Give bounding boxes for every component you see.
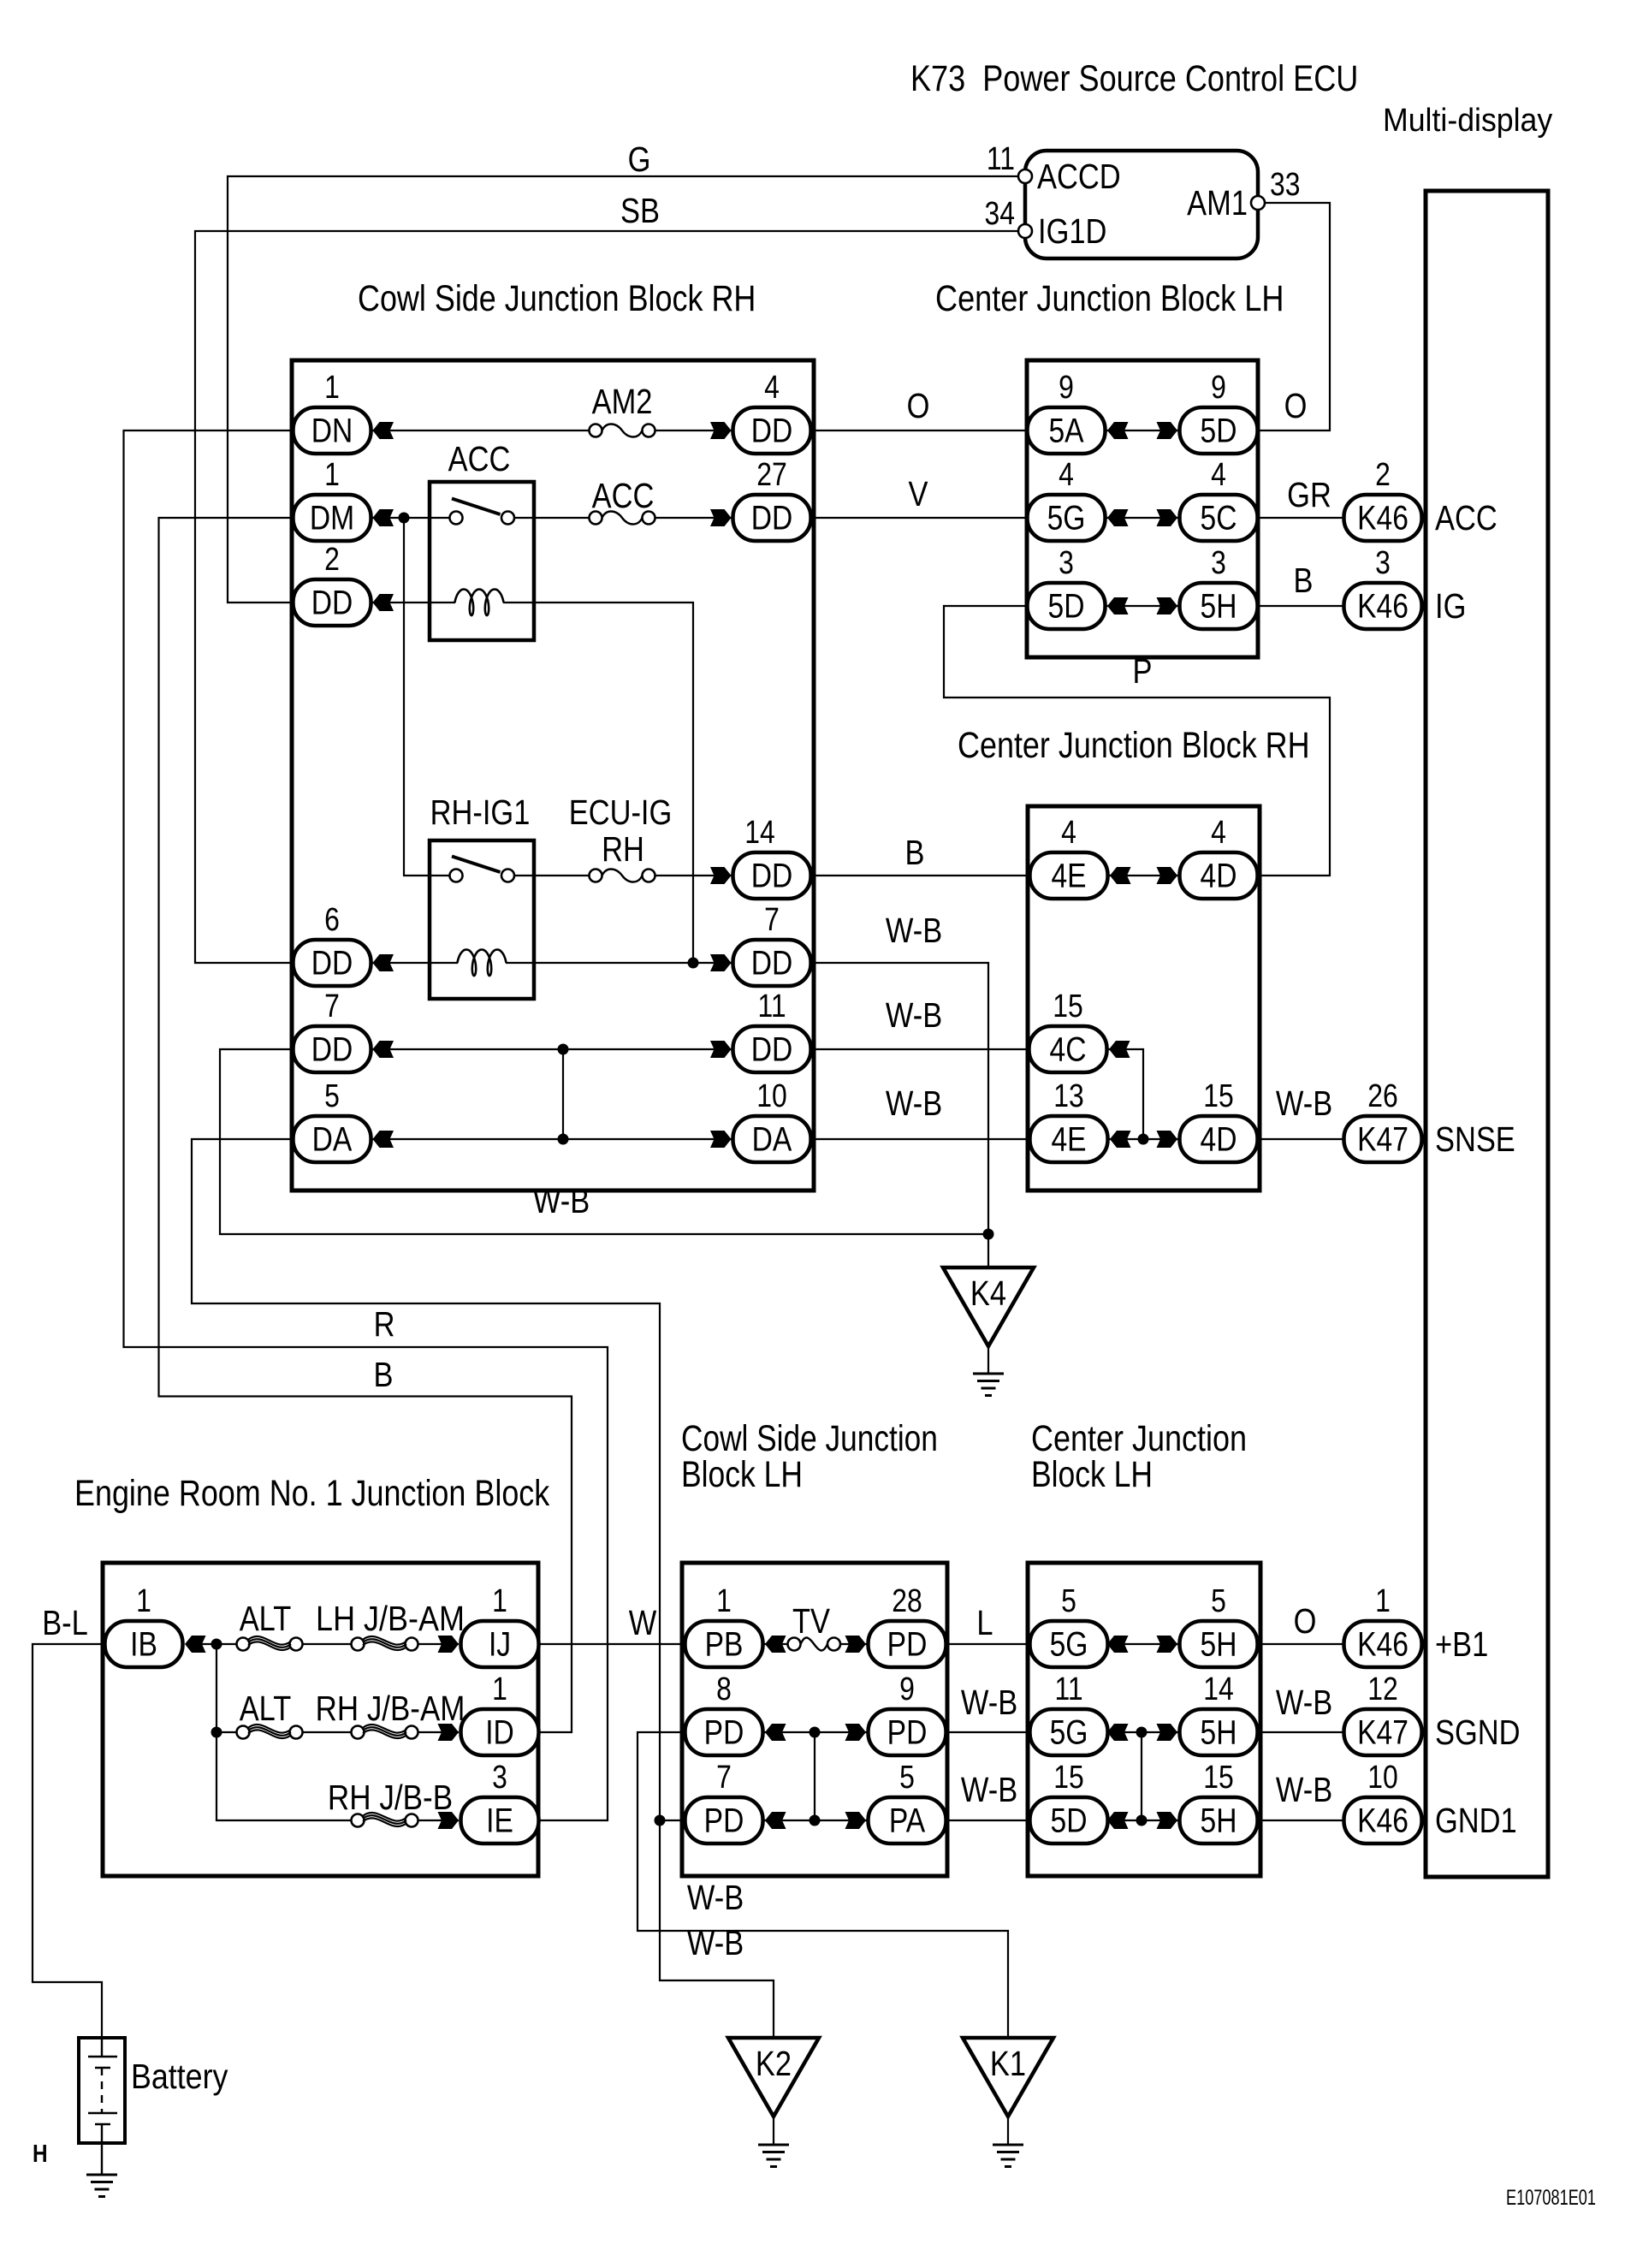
svg-text:ACC: ACC <box>592 477 655 515</box>
ECU K73 body <box>1025 151 1258 258</box>
svg-text:5G: 5G <box>1050 1625 1088 1663</box>
svg-text:ECU-IG: ECU-IG <box>569 793 673 832</box>
connector DM pin 1 <box>294 456 371 541</box>
wire IB to fusible link ALT <box>187 1643 237 1645</box>
svg-text:DN: DN <box>311 412 353 449</box>
svg-text:4D: 4D <box>1201 857 1237 894</box>
svg-text:ACC: ACC <box>448 440 511 478</box>
junction IB row <box>211 1639 222 1650</box>
svg-text:3: 3 <box>1211 544 1226 580</box>
connector IE pin 3 <box>461 1759 539 1843</box>
svg-text:5: 5 <box>324 1078 340 1113</box>
svg-text:Center Junction Block LH: Center Junction Block LH <box>935 278 1284 319</box>
svg-text:3: 3 <box>492 1759 507 1795</box>
svg-text:DD: DD <box>751 944 793 982</box>
wire SB: ECU IG1D to DD 6 <box>195 231 1018 963</box>
svg-text:9: 9 <box>1211 369 1226 405</box>
wire PD 8 to PD 9 <box>763 1731 869 1733</box>
svg-text:PA: PA <box>889 1802 926 1839</box>
wire V: DD 27 to 5G <box>811 517 1028 519</box>
svg-text:W-B: W-B <box>1276 1084 1332 1123</box>
wire 4E to 4D <box>1108 875 1179 876</box>
arrow into IE <box>438 1812 460 1829</box>
svg-text:5: 5 <box>899 1759 915 1795</box>
svg-text:TV: TV <box>792 1602 831 1641</box>
earth ground under battery <box>86 2175 117 2197</box>
junction block box Center Junction Block LH <box>1027 360 1258 657</box>
connector 5G pin 11 <box>1030 1671 1108 1755</box>
wire fuse TV to PD 28 <box>840 1643 869 1645</box>
wire ACC relay switch to fuse ACC <box>514 517 590 519</box>
relay ACC box <box>430 482 534 640</box>
relay ACC switch <box>450 499 515 525</box>
svg-text:W-B: W-B <box>961 1771 1017 1809</box>
svg-text:5G: 5G <box>1050 1713 1088 1751</box>
connector 5H pin 15 <box>1180 1759 1258 1843</box>
wire O: DD 4 to 5A <box>811 430 1028 431</box>
connector PA pin 5 <box>869 1759 946 1843</box>
svg-text:ACC: ACC <box>1435 499 1497 537</box>
svg-text:10: 10 <box>756 1078 787 1113</box>
svg-text:E107081E01: E107081E01 <box>1506 2185 1596 2209</box>
arrow into 5D lower <box>1107 597 1129 614</box>
svg-text:33: 33 <box>1270 166 1301 202</box>
svg-text:K46: K46 <box>1357 499 1409 537</box>
svg-text:LH J/B-AM: LH J/B-AM <box>316 1600 465 1638</box>
wire W-B: DD 7 right to K4 junction <box>811 963 989 1234</box>
svg-text:W-B: W-B <box>961 1683 1017 1722</box>
wire 5G to 5H row2 <box>1106 1731 1180 1733</box>
svg-text:P: P <box>1133 652 1153 691</box>
arrow into 5A <box>1107 422 1129 439</box>
svg-text:H: H <box>33 2140 48 2167</box>
connector 5H pin 14 <box>1180 1671 1258 1755</box>
svg-text:26: 26 <box>1367 1078 1398 1113</box>
connector PD pin 9 <box>869 1671 946 1755</box>
wire B: DD 14 to 4E <box>811 875 1030 876</box>
svg-text:ALT: ALT <box>240 1600 292 1638</box>
fusible link RH J/B-AM <box>352 1725 418 1739</box>
svg-text:1: 1 <box>492 1582 507 1618</box>
wire 4E to 4D lower <box>1108 1138 1179 1140</box>
svg-text:Multi-display: Multi-display <box>1383 102 1553 138</box>
svg-text:27: 27 <box>756 456 787 492</box>
svg-text:Cowl Side Junction Block RH: Cowl Side Junction Block RH <box>358 278 756 319</box>
connector 5G pin 5 <box>1030 1582 1108 1667</box>
svg-text:W-B: W-B <box>886 911 942 950</box>
junction DD 7 coil branch <box>688 958 699 969</box>
arrow into PA <box>845 1812 867 1829</box>
relay RH-IG1 coil <box>458 950 507 977</box>
svg-text:15: 15 <box>1053 988 1083 1024</box>
svg-text:DA: DA <box>312 1120 353 1158</box>
svg-text:4E: 4E <box>1051 1120 1086 1158</box>
connector IJ pin 1 <box>461 1582 539 1667</box>
wire DD 2 to ACC relay coil <box>371 602 456 603</box>
arrow into IB <box>185 1636 206 1653</box>
junction block box Center Junction Block RH <box>1028 806 1260 1190</box>
wire R: DN to IE <box>124 430 608 1820</box>
svg-text:5D: 5D <box>1051 1802 1088 1839</box>
svg-text:11: 11 <box>1054 1671 1082 1707</box>
ECU pin 34 IG1D circle <box>1018 224 1032 238</box>
arrow into ID <box>438 1724 460 1741</box>
arrow into DD 14 <box>710 867 732 884</box>
svg-text:DD: DD <box>311 944 353 982</box>
connector 4D pin 15 <box>1180 1078 1258 1162</box>
connector 4D pin 4 <box>1180 814 1258 899</box>
svg-text:Engine Room No. 1 Junction Blo: Engine Room No. 1 Junction Block <box>74 1473 549 1514</box>
svg-text:W-B: W-B <box>1276 1771 1332 1809</box>
svg-text:K73 Power Source Control ECU: K73 Power Source Control ECU <box>910 58 1358 99</box>
wire W-B: DA to 4E lower <box>811 1138 1030 1140</box>
svg-text:W: W <box>629 1604 657 1642</box>
wire RH-IG1 switch to fuse ECU-IG RH <box>514 875 590 876</box>
svg-text:7: 7 <box>716 1759 732 1795</box>
arrow into 5D 15 <box>1107 1812 1129 1829</box>
fusible link RH J/B-B <box>352 1813 418 1827</box>
svg-text:4: 4 <box>1211 814 1226 850</box>
wire junction column in Engine Room block <box>216 1644 352 1820</box>
svg-text:SGND: SGND <box>1435 1713 1521 1752</box>
junction 5D 15 row <box>1136 1815 1148 1826</box>
junction at ground K4 <box>983 1229 994 1240</box>
ground symbol K4 <box>943 1268 1034 1346</box>
wire DN to fuse AM2 <box>371 430 590 431</box>
connector 5D pin 3 <box>1028 544 1106 629</box>
connector DD pin 2 <box>294 541 371 626</box>
svg-text:R: R <box>374 1305 395 1344</box>
junction block box Engine Room No. 1 Junction Block <box>103 1563 538 1876</box>
wire to ground K4 <box>987 1234 989 1268</box>
wire L: PD 28 to 5G <box>946 1643 1030 1645</box>
svg-text:4: 4 <box>764 369 780 405</box>
svg-text:12: 12 <box>1367 1671 1398 1707</box>
wire stub to PD 7 <box>660 1820 685 1821</box>
wire tie PD rows <box>814 1732 815 1820</box>
svg-text:10: 10 <box>1367 1759 1398 1795</box>
svg-text:15: 15 <box>1203 1759 1234 1795</box>
connector DD pin 27 <box>733 456 811 541</box>
arrow into DD 7 left <box>373 1041 394 1058</box>
junction DA row <box>558 1134 569 1145</box>
svg-text:1: 1 <box>324 369 340 405</box>
svg-text:DD: DD <box>311 584 353 621</box>
svg-text:3: 3 <box>1059 544 1074 580</box>
arrow into PD 7 <box>765 1812 786 1829</box>
wire W: DA to PD 7 and ground K2 <box>192 1139 774 2038</box>
connector PD pin 7 <box>685 1759 763 1843</box>
wire O: 5H to K46 +B1 <box>1257 1643 1344 1645</box>
wire between fusible links row 1 <box>303 1643 352 1645</box>
earth ground under K2 <box>758 2145 789 2167</box>
svg-text:8: 8 <box>716 1671 732 1707</box>
relay RH-IG1 switch <box>450 857 515 882</box>
wire P: 4D to 5D lower <box>944 606 1330 876</box>
svg-text:O: O <box>1294 1602 1317 1641</box>
svg-text:O: O <box>1284 387 1308 425</box>
arrow into 5G lower <box>1107 1636 1129 1653</box>
svg-text:B: B <box>905 834 925 872</box>
junction block box Cowl Side Junction Block LH <box>682 1563 947 1876</box>
wire GR: 5C to K46 <box>1257 517 1344 519</box>
wire W-B: PA to 5D 15 <box>946 1820 1030 1821</box>
fusible link ALT row 1 <box>237 1636 303 1651</box>
wire from DM junction to RH-IG1 switch <box>404 518 450 876</box>
wire RH-IG1 relay coil to DD 7 right <box>506 962 733 964</box>
svg-text:L: L <box>976 1604 993 1642</box>
svg-text:5D: 5D <box>1048 587 1085 625</box>
svg-text:5A: 5A <box>1048 412 1083 449</box>
wire 5D to 5H row3 <box>1106 1820 1180 1821</box>
wire 5G to 5C <box>1106 517 1180 519</box>
svg-text:O: O <box>907 387 930 425</box>
connector PB pin 1 <box>685 1582 763 1667</box>
wire K4 apex to earth <box>987 1346 989 1374</box>
svg-text:6: 6 <box>324 901 340 937</box>
svg-text:GR: GR <box>1287 476 1331 514</box>
arrow into 4E lower <box>1110 1131 1131 1148</box>
svg-text:K47: K47 <box>1357 1713 1409 1751</box>
svg-text:15: 15 <box>1203 1078 1234 1113</box>
svg-text:B-L: B-L <box>42 1604 88 1642</box>
svg-text:4: 4 <box>1211 456 1226 492</box>
arrow into 5H lower <box>1157 1636 1178 1653</box>
junction at DM relay branch <box>399 513 410 524</box>
wire W-B: 5H to K47 SGND <box>1257 1731 1344 1733</box>
arrow into 5H 15 <box>1157 1812 1178 1829</box>
wire fusible link to ID <box>418 1731 460 1733</box>
svg-text:AM2: AM2 <box>592 383 653 421</box>
wire tie rows DD11-DA <box>562 1049 564 1139</box>
svg-text:1: 1 <box>1375 1582 1391 1618</box>
arrow into PD 8 <box>765 1724 786 1741</box>
svg-text:K2: K2 <box>756 2045 792 2083</box>
connector K46 pin 10 GND1 <box>1344 1759 1517 1843</box>
arrow into PB <box>765 1636 786 1653</box>
arrow into IJ <box>438 1636 460 1653</box>
svg-text:B: B <box>374 1356 394 1394</box>
wire tie 5G-5D rows <box>1141 1732 1142 1820</box>
svg-text:5H: 5H <box>1201 1802 1237 1839</box>
connector K46 pin 2 ACC <box>1344 456 1497 541</box>
arrow into DD 6 <box>373 954 394 971</box>
fuse ECU-IG RH <box>590 869 655 882</box>
junction DD 11 row <box>558 1044 569 1055</box>
connector IB pin 1 <box>105 1582 183 1667</box>
battery <box>79 2038 125 2175</box>
junction PD 7 row <box>810 1815 821 1826</box>
arrow into DN <box>373 422 394 439</box>
connector 5A pin 9 <box>1028 369 1106 454</box>
component box Multi-display <box>1426 191 1548 1877</box>
svg-text:PD: PD <box>704 1802 744 1839</box>
fusible link LH J/B-AM <box>352 1636 418 1651</box>
wire DD 7 left to DD 11 <box>371 1048 733 1050</box>
svg-text:PD: PD <box>704 1713 744 1751</box>
svg-text:PB: PB <box>705 1625 744 1663</box>
svg-text:5G: 5G <box>1047 499 1086 537</box>
connector DD pin 4 <box>733 369 811 454</box>
wire W-B: DD 7 to ground K4 <box>220 1049 988 1234</box>
svg-text:IJ: IJ <box>489 1625 511 1663</box>
junction 5G 11 row <box>1136 1727 1148 1738</box>
connector K46 pin 1 +B1 <box>1344 1582 1489 1667</box>
arrow into PD 28 <box>845 1636 867 1653</box>
svg-text:11: 11 <box>757 988 786 1024</box>
arrow into 4E <box>1110 867 1131 884</box>
wire B-L: IB to battery <box>33 1644 105 2038</box>
svg-text:V: V <box>909 475 929 514</box>
ground symbol K2 <box>728 2038 819 2117</box>
svg-text:5C: 5C <box>1201 499 1237 537</box>
svg-text:IG: IG <box>1435 587 1466 626</box>
arrow into DA right <box>710 1131 732 1148</box>
svg-text:K46: K46 <box>1357 1625 1409 1663</box>
svg-text:1: 1 <box>136 1582 151 1618</box>
junction block box Cowl Side Junction Block RH <box>292 360 814 1190</box>
connector DD pin 11 <box>733 988 811 1072</box>
wire fuse AM2 to DD 4 <box>655 430 733 431</box>
arrow into DA left <box>373 1131 394 1148</box>
svg-text:PD: PD <box>887 1713 928 1751</box>
svg-text:DM: DM <box>310 499 354 537</box>
svg-text:W-B: W-B <box>533 1182 590 1220</box>
svg-text:G: G <box>628 140 651 179</box>
connector 5D pin 15 <box>1030 1759 1108 1843</box>
wire B: 5H to K46 IG <box>1257 605 1344 607</box>
svg-text:W-B: W-B <box>687 1924 744 1962</box>
connector 5D pin 9 <box>1180 369 1258 454</box>
svg-text:14: 14 <box>1203 1671 1234 1707</box>
svg-text:28: 28 <box>892 1582 922 1618</box>
svg-text:K47: K47 <box>1357 1120 1409 1158</box>
connector DD pin 14 <box>733 814 811 899</box>
svg-text:Center Junction: Center Junction <box>1031 1418 1247 1459</box>
svg-text:DD: DD <box>751 412 793 449</box>
svg-text:13: 13 <box>1053 1078 1084 1113</box>
earth ground under K1 <box>993 2145 1023 2167</box>
wire O: ECU AM1 to 5D <box>1258 203 1331 430</box>
svg-text:B: B <box>1294 561 1314 600</box>
ECU pin 11 ACCD circle <box>1018 169 1032 183</box>
wire 5G to 5H lower row1 <box>1106 1643 1180 1645</box>
wire K1 apex to earth <box>1007 2117 1009 2145</box>
svg-text:W-B: W-B <box>1276 1683 1332 1722</box>
svg-text:1: 1 <box>324 456 340 492</box>
connector DN pin 1 <box>294 369 371 454</box>
svg-text:K1: K1 <box>990 2045 1026 2083</box>
svg-text:+B1: +B1 <box>1435 1625 1488 1664</box>
connector 5C pin 4 <box>1180 456 1258 541</box>
svg-text:5: 5 <box>1061 1582 1076 1618</box>
svg-text:IG1D: IG1D <box>1038 212 1106 251</box>
wire W-B: PD 8 to ground K1 <box>638 1732 1008 2038</box>
wire to fusible link ALT row 2 <box>216 1731 237 1733</box>
svg-text:4C: 4C <box>1050 1030 1087 1068</box>
svg-text:4E: 4E <box>1051 857 1086 894</box>
junction PD 8 row <box>810 1727 821 1738</box>
wire PB to fuse TV <box>763 1643 788 1645</box>
svg-text:RH J/B-B: RH J/B-B <box>328 1778 453 1817</box>
svg-text:4: 4 <box>1059 456 1074 492</box>
svg-text:ID: ID <box>485 1713 514 1751</box>
svg-text:ACCD: ACCD <box>1037 157 1121 196</box>
wire DD 6 to RH-IG1 relay coil <box>371 962 459 964</box>
arrow into 5G <box>1107 509 1129 526</box>
wire 4C to 4E-4D junction <box>1107 1049 1144 1139</box>
connector 5H pin 3 <box>1180 544 1258 629</box>
svg-text:DA: DA <box>752 1120 792 1158</box>
svg-text:SNSE: SNSE <box>1435 1120 1515 1159</box>
fusible link ALT row 2 <box>237 1725 303 1739</box>
connector 4C pin 15 <box>1029 988 1107 1072</box>
svg-text:Block LH: Block LH <box>1031 1454 1153 1495</box>
svg-text:GND1: GND1 <box>1435 1802 1517 1840</box>
svg-text:5H: 5H <box>1201 587 1237 625</box>
connector PD pin 8 <box>685 1671 763 1755</box>
svg-text:7: 7 <box>764 901 780 937</box>
connector 5H pin 5 lower <box>1180 1582 1258 1667</box>
arrow into DD 7 right <box>710 954 732 971</box>
svg-text:2: 2 <box>1375 456 1391 492</box>
arrow into 4C <box>1109 1041 1130 1058</box>
connector DD pin 7 left <box>294 988 371 1072</box>
wire PD 7 to PA <box>763 1820 869 1821</box>
connector PD pin 28 <box>869 1582 946 1667</box>
wire K2 apex to earth <box>773 2117 774 2145</box>
earth ground under K4 <box>973 1374 1004 1396</box>
junction PD 7 left <box>655 1815 666 1826</box>
arrow into PD 9 <box>845 1724 867 1741</box>
connector K46 pin 3 IG <box>1344 544 1467 629</box>
svg-text:W-B: W-B <box>687 1879 744 1917</box>
svg-text:5D: 5D <box>1201 412 1237 449</box>
svg-text:SB: SB <box>620 192 660 230</box>
svg-text:4D: 4D <box>1201 1120 1237 1158</box>
wire fusible link to IE <box>418 1820 460 1821</box>
arrow into 5D <box>1157 422 1178 439</box>
svg-text:RH: RH <box>602 830 644 869</box>
fuse TV <box>788 1637 841 1650</box>
connector DA pin 5 <box>294 1078 371 1162</box>
svg-text:W-B: W-B <box>886 996 942 1035</box>
connector 4E pin 13 <box>1030 1078 1108 1162</box>
arrow into DD 2 <box>373 594 394 611</box>
junction ALT row 2 <box>211 1727 222 1738</box>
wire W-B: 5H to K46 GND1 <box>1257 1820 1344 1821</box>
arrow into 5G 11 <box>1107 1724 1129 1741</box>
svg-text:3: 3 <box>1375 544 1391 580</box>
svg-text:11: 11 <box>987 140 1015 176</box>
wire 5D to 5H <box>1106 605 1180 607</box>
svg-text:Cowl Side Junction: Cowl Side Junction <box>681 1418 938 1459</box>
svg-text:1: 1 <box>716 1582 732 1618</box>
wire ACC relay coil down to DD 7 row <box>503 603 693 963</box>
svg-text:K46: K46 <box>1357 587 1409 625</box>
svg-text:AM1: AM1 <box>1187 184 1248 223</box>
wire B: DM to ID <box>159 518 572 1732</box>
svg-text:DD: DD <box>751 1030 793 1068</box>
svg-text:5H: 5H <box>1201 1713 1237 1751</box>
svg-text:9: 9 <box>1059 369 1074 405</box>
ECU pin 33 AM1 circle <box>1251 196 1265 210</box>
connector DD pin 7 right <box>733 901 811 986</box>
svg-text:PD: PD <box>887 1625 928 1663</box>
wire 5A to 5D <box>1106 430 1180 431</box>
relay ACC coil <box>455 590 504 616</box>
wire DA to DA <box>371 1138 733 1140</box>
